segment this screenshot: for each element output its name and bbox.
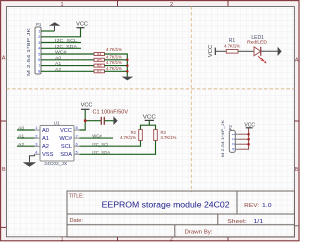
wire A0 from P1 pin6 xyxy=(41,59,94,61)
connector P2 body xyxy=(229,130,235,152)
svg-text:A2: A2 xyxy=(18,142,25,147)
top border tick 1 xyxy=(117,1,119,6)
ground arrow right at LED xyxy=(278,47,282,56)
svg-text:B: B xyxy=(2,167,6,173)
wire WC# from U1 xyxy=(80,137,114,139)
wire VCC to R2 R3 tops xyxy=(141,121,156,130)
title block row divider 2 xyxy=(67,224,295,226)
ground arrow right at C1 xyxy=(113,116,117,125)
junction dot A2 xyxy=(126,70,129,73)
svg-text:4.7K/1%: 4.7K/1% xyxy=(106,54,122,59)
U1 left pin stubs xyxy=(35,130,41,154)
wire net I2C_SDA from P1 pin4 xyxy=(41,47,81,49)
resistor R3 xyxy=(154,130,158,141)
svg-text:1.0: 1.0 xyxy=(262,203,272,209)
left border tick xyxy=(1,120,6,122)
title block DrawnBy divider xyxy=(174,225,176,237)
LED1 diode xyxy=(254,47,261,56)
svg-text:1: 1 xyxy=(60,2,63,8)
P2 pin numbers xyxy=(230,132,235,150)
wire WC# from P1 pin5 xyxy=(41,53,94,55)
svg-text:R5: R5 xyxy=(97,58,102,62)
svg-text:P2: P2 xyxy=(228,124,233,130)
U1 right pin stubs xyxy=(74,130,80,154)
right border lower tick xyxy=(295,225,300,227)
bottom border tick 2 xyxy=(227,237,229,241)
top border tick 2 xyxy=(227,1,229,6)
svg-text:VSS: VSS xyxy=(42,152,54,158)
wire A0 to U1 xyxy=(17,129,35,131)
LED1 emission arrows xyxy=(258,56,264,61)
svg-text:Drawn By:: Drawn By: xyxy=(185,229,214,235)
resistor R4 xyxy=(94,53,105,56)
svg-text:WC#: WC# xyxy=(92,134,102,139)
right border tick xyxy=(295,120,300,122)
svg-text:4.7K/1%: 4.7K/1% xyxy=(106,47,122,52)
svg-text:Date:: Date: xyxy=(70,218,84,224)
title block Sheet divider xyxy=(217,214,219,225)
svg-text:EEPROM storage module 24C02: EEPROM storage module 24C02 xyxy=(102,199,230,209)
U1 pin names left xyxy=(42,128,54,158)
svg-text:A0: A0 xyxy=(55,55,62,60)
svg-text:WC#: WC# xyxy=(59,136,72,142)
svg-text:VCC: VCC xyxy=(81,103,93,109)
svg-text:1/1: 1/1 xyxy=(253,219,263,225)
svg-text:A0: A0 xyxy=(42,128,49,134)
junction dot A0 xyxy=(126,59,129,62)
IC U1 body xyxy=(40,126,74,162)
svg-text:A: A xyxy=(2,56,6,62)
wire I2C_SDA from U1 to R3 xyxy=(80,141,156,155)
svg-text:VCC: VCC xyxy=(208,45,214,58)
U1 left pin numbers xyxy=(35,125,38,154)
svg-text:2: 2 xyxy=(170,237,173,243)
resistor R6 xyxy=(94,64,105,67)
U1 pin names right xyxy=(59,128,72,158)
svg-text:SCL: SCL xyxy=(61,144,72,150)
wire LED1 to gnd arrow xyxy=(261,50,278,52)
svg-text:I2C_SDA: I2C_SDA xyxy=(92,150,110,155)
wire R1 to LED1 xyxy=(238,50,254,52)
svg-text:I2C_SCL: I2C_SCL xyxy=(92,142,110,147)
svg-text:B: B xyxy=(295,167,299,173)
svg-text:VCC: VCC xyxy=(76,22,88,28)
svg-text:M 2.54 1*8P JK: M 2.54 1*8P JK xyxy=(26,28,31,76)
svg-text:A2: A2 xyxy=(55,67,62,72)
svg-text:4.7K/1%: 4.7K/1% xyxy=(224,43,240,48)
junction dot P2 pin1 xyxy=(247,133,250,136)
junction dot P2 pin2 xyxy=(247,138,250,141)
wire P1 pin2 to VCC xyxy=(41,28,81,37)
svg-text:Sheet:: Sheet: xyxy=(227,219,247,225)
svg-text:A1: A1 xyxy=(18,134,25,139)
ground arrow down at resistor pack xyxy=(122,77,134,81)
vertical dashed section divider xyxy=(190,7,192,193)
svg-text:Red/LED: Red/LED xyxy=(247,39,267,45)
wire VSS to ground xyxy=(30,154,35,162)
wire U1 VCC pin to VCC and C1 xyxy=(80,110,86,130)
svg-text:A1: A1 xyxy=(55,61,62,66)
left border lower tick xyxy=(1,226,6,228)
wire I2C_SCL from U1 to R2 xyxy=(80,141,141,147)
svg-text:P1: P1 xyxy=(36,22,42,27)
svg-text:1: 1 xyxy=(60,237,63,243)
svg-text:WC#: WC# xyxy=(55,50,67,55)
svg-text:R6: R6 xyxy=(97,64,102,68)
svg-text:4.7K/1%: 4.7K/1% xyxy=(120,135,136,140)
wire A1 from P1 pin7 xyxy=(41,65,94,67)
title block outline xyxy=(67,191,295,237)
wire A2 to U1 xyxy=(17,145,35,147)
bottom border tick 1 xyxy=(117,237,119,241)
svg-text:M 2.54 1*4P_JK: M 2.54 1*4P_JK xyxy=(220,120,225,157)
resistor R1 xyxy=(226,50,238,54)
VCC symbol at P1 xyxy=(77,27,85,29)
wire resistor pack common xyxy=(105,54,128,77)
svg-text:TITLE:: TITLE: xyxy=(69,194,84,200)
wire P1 pin1 to ground xyxy=(41,30,55,32)
wire net I2C_SCL from P1 pin3 xyxy=(41,42,81,44)
ground arrow up at P1 xyxy=(49,22,60,26)
title block REV divider xyxy=(236,191,238,214)
resistor R5 xyxy=(94,58,105,61)
svg-text:R7: R7 xyxy=(97,70,102,74)
svg-text:U1: U1 xyxy=(54,120,60,125)
wire VCC to R1 xyxy=(215,50,226,52)
svg-text:REV:: REV: xyxy=(244,203,259,209)
svg-text:A1: A1 xyxy=(42,136,49,142)
wire A1 to U1 xyxy=(17,137,35,139)
junction dot P2 pin3 xyxy=(247,143,250,146)
svg-text:4.7K/1%: 4.7K/1% xyxy=(106,66,122,71)
capacitor C1 xyxy=(100,117,102,125)
title block row divider 1 xyxy=(67,213,295,215)
svg-text:I2C_SDA: I2C_SDA xyxy=(55,44,77,49)
resistor R2 xyxy=(139,130,143,141)
svg-text:VCC: VCC xyxy=(60,128,72,134)
svg-text:A: A xyxy=(295,58,299,64)
svg-text:A2: A2 xyxy=(42,144,49,150)
wire C1 to gnd arrow xyxy=(104,120,113,122)
U1 right pin numbers xyxy=(76,125,79,154)
svg-text:24C02_JX: 24C02_JX xyxy=(44,161,68,167)
svg-text:VCC: VCC xyxy=(143,114,156,120)
junction dot A1 xyxy=(126,64,129,67)
wire to C1 xyxy=(85,120,101,122)
ground arrow down at U1 xyxy=(23,162,36,167)
P1 pin numbers xyxy=(38,28,41,73)
svg-text:A0: A0 xyxy=(18,126,25,131)
svg-text:SDA: SDA xyxy=(60,152,72,158)
wire A2 from P1 pin8 xyxy=(41,70,94,72)
svg-text:R4: R4 xyxy=(97,53,102,57)
svg-text:2: 2 xyxy=(170,2,173,8)
P2 pin stubs xyxy=(235,134,239,149)
connector P1 body xyxy=(35,27,41,74)
svg-text:4.7K/1%: 4.7K/1% xyxy=(161,135,177,140)
horizontal dashed section divider xyxy=(7,88,295,90)
junction dot at C1 xyxy=(84,119,87,122)
svg-text:4.7K/1%: 4.7K/1% xyxy=(106,60,122,65)
svg-text:C1 100nF/50V: C1 100nF/50V xyxy=(93,109,129,115)
P2 wires to VCC rail xyxy=(239,128,249,149)
resistor R7 xyxy=(94,70,105,73)
svg-text:I2C_SCL: I2C_SCL xyxy=(55,38,78,43)
